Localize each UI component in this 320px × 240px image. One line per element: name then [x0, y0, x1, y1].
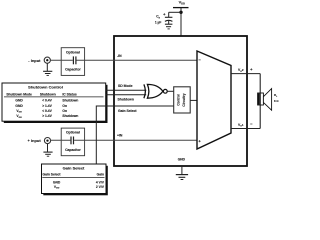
pin label Shutdown	[118, 98, 134, 102]
pin label Vo1	[238, 123, 244, 128]
node - Input label	[28, 58, 41, 63]
svg-text:On: On	[62, 109, 67, 113]
connector J1 minus input jack	[44, 57, 50, 63]
wire SD Mode (table to gate)	[106, 89, 147, 91]
capacitor CS value 1 uF	[155, 21, 161, 25]
svg-text:VO2: VO2	[238, 68, 244, 73]
wire VDD bar to chip VDD pin	[180, 8, 182, 37]
svg-text:1 µF: 1 µF	[155, 21, 161, 25]
svg-text:Shutdown Mode: Shutdown Mode	[6, 92, 32, 96]
wire plus input to coupling cap	[50, 139, 70, 141]
svg-text:< 0.4V: < 0.4V	[42, 109, 52, 113]
capacitor CS polarity +	[163, 13, 165, 15]
svg-text:Gain Select: Gain Select	[43, 172, 62, 176]
capacitor C1 coupling (minus)	[73, 56, 76, 64]
XNOR output bubble	[163, 89, 167, 93]
svg-text:Capacitor: Capacitor	[65, 68, 81, 72]
svg-text:+IN: +IN	[117, 134, 123, 138]
speaker label RL 8 ohm	[274, 93, 278, 98]
ground for minus input connector	[43, 63, 52, 75]
svg-text:- Input: - Input	[28, 58, 41, 63]
connector J2 plus input jack	[44, 138, 50, 144]
wire Shutdown (table to gate)	[106, 94, 147, 96]
pin label -IN	[117, 54, 122, 58]
capacitor CS label	[156, 15, 160, 20]
wire cap to +IN pin and amp	[74, 139, 197, 141]
amp minus input mark	[199, 59, 201, 61]
junction dot VDD node	[179, 11, 182, 14]
svg-text:Control: Control	[177, 94, 181, 105]
svg-text:VO1: VO1	[238, 123, 244, 128]
wire speaker vertical	[259, 74, 261, 129]
node + Input label	[27, 138, 41, 143]
capacitor C2 coupling (plus)	[71, 137, 74, 145]
VDD rail bar	[173, 7, 189, 9]
svg-text:-IN: -IN	[117, 54, 122, 58]
pin label Vo2	[238, 68, 244, 73]
wire cap to -IN pin and amp	[77, 59, 198, 61]
wire Vo2 output	[231, 73, 260, 75]
svg-text:Gain Select: Gain Select	[63, 165, 85, 170]
wire control circuitry to amp	[190, 99, 197, 101]
svg-text:< 0.4V: < 0.4V	[42, 99, 52, 103]
shutdown control table	[2, 83, 106, 121]
svg-text:SD Mode: SD Mode	[118, 84, 133, 88]
wire Vo1 output	[231, 128, 260, 130]
svg-text:On: On	[62, 104, 67, 108]
amp plus input mark	[199, 140, 201, 142]
svg-text:Optional: Optional	[66, 131, 80, 135]
speaker RL cone	[263, 89, 271, 111]
svg-text:Gain: Gain	[97, 172, 104, 176]
svg-text:IC Status: IC Status	[62, 92, 76, 96]
svg-text:> 1.4V: > 1.4V	[42, 114, 52, 118]
gain select table shadow	[43, 166, 108, 196]
wire Gain Select (riser from gain table)	[96, 106, 173, 164]
wire GND pin to ground	[181, 166, 183, 174]
svg-text:Circuitry: Circuitry	[182, 93, 186, 106]
node VDD supply label	[179, 0, 185, 5]
pin label Gain Select	[118, 109, 137, 113]
ground for CS	[165, 24, 173, 29]
XNOR gate U1	[144, 84, 163, 98]
IC block outline	[114, 36, 247, 166]
svg-text:GND: GND	[15, 104, 23, 108]
svg-text:Capacitor: Capacitor	[65, 148, 81, 152]
svg-text:GND: GND	[178, 158, 186, 162]
svg-text:Shutdown: Shutdown	[62, 114, 78, 118]
optional capacitor box (minus input)	[61, 48, 84, 76]
svg-text:> 1.4V: > 1.4V	[42, 104, 52, 108]
ground for plus input connector	[43, 144, 52, 157]
polarity + at speaker top	[250, 68, 252, 70]
svg-text:Optional: Optional	[66, 50, 80, 54]
svg-text:GND: GND	[53, 180, 61, 184]
ground for IC	[176, 175, 188, 180]
speaker RL driver body	[258, 93, 264, 105]
svg-text:+ Input: + Input	[27, 138, 41, 143]
pin label SD Mode	[118, 84, 133, 88]
optional capacitor box (plus input)	[61, 128, 84, 156]
pin label +IN	[117, 134, 123, 138]
pin label GND	[178, 158, 186, 162]
wire minus input to coupling cap	[50, 59, 73, 61]
polarity - at speaker bottom	[250, 123, 252, 125]
svg-text:4 V/V: 4 V/V	[96, 180, 105, 184]
svg-text:Shutdown: Shutdown	[118, 98, 134, 102]
power amplifier A1 (trapezoid)	[197, 51, 231, 149]
svg-text:Shutdown Control: Shutdown Control	[28, 84, 63, 89]
control circuitry block	[174, 87, 191, 113]
capacitor CS	[165, 12, 173, 24]
svg-text:Shutdown: Shutdown	[62, 99, 78, 103]
gain select table	[42, 164, 107, 194]
wire VDD node to Cs	[169, 11, 181, 13]
svg-text:Gain Select: Gain Select	[118, 109, 137, 113]
shutdown control table shadow	[4, 85, 108, 123]
svg-text:GND: GND	[15, 99, 23, 103]
svg-text:Shutdown: Shutdown	[40, 92, 56, 96]
svg-text:2 V/V: 2 V/V	[96, 185, 105, 189]
wire gate to control circuitry	[167, 90, 174, 92]
